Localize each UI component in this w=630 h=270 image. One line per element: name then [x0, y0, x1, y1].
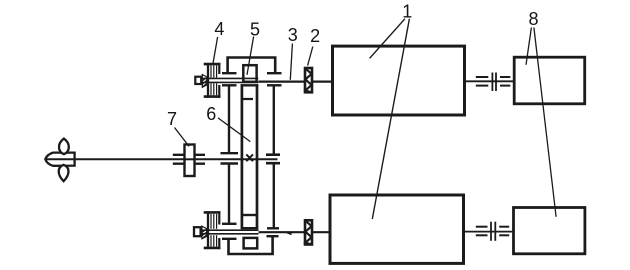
- gearbox left wall lower: [228, 164, 230, 224]
- propeller shaft (center line): [46, 158, 278, 160]
- svg-text:4: 4: [214, 19, 224, 39]
- label 4: [214, 19, 224, 39]
- label 5: [250, 19, 260, 39]
- leader line 8 to top generator: [526, 28, 531, 65]
- pinion 5: [243, 65, 256, 82]
- flexible coupling bottom (flange pair): [491, 222, 495, 241]
- propeller hub: [45, 153, 74, 166]
- top input shaft 3: [258, 80, 332, 82]
- gearbox top bearing feet above top shaft: [222, 72, 282, 74]
- label 6: [206, 104, 216, 124]
- thrust bearing 7 flange bars: [173, 155, 205, 164]
- center shaft bearing bars below: [221, 162, 281, 165]
- clutch 4 top end box: [195, 77, 201, 84]
- bottom input shaft: [259, 231, 331, 233]
- label 7: [167, 109, 177, 129]
- main gear wheel 6: [241, 84, 259, 229]
- leader line 3: [290, 44, 292, 80]
- gear to shaft connection mark: [246, 154, 253, 161]
- svg-text:5: 5: [250, 19, 260, 39]
- clutch bottom end box: [194, 227, 201, 236]
- svg-text:3: 3: [288, 25, 298, 45]
- propeller lower blade: [59, 165, 69, 181]
- clutch 4 top friction plates: [211, 66, 217, 96]
- leader line 4: [213, 37, 218, 65]
- engine 1 top: [333, 46, 465, 115]
- gearbox left wall upper: [228, 85, 230, 153]
- leader line 6: [218, 118, 250, 142]
- flexible coupling top (flange pair): [492, 73, 496, 92]
- gearbox right wall lower: [273, 163, 275, 228]
- elastic coupling bottom: [305, 220, 312, 244]
- engine 1 bottom: [330, 195, 464, 263]
- gearbox right wall upper: [273, 85, 275, 154]
- svg-text:6: 6: [206, 104, 216, 124]
- arrow mark on bottom shaft: [286, 232, 292, 235]
- gearbox top bracket: [228, 58, 276, 74]
- clutch 4 top cone: [202, 75, 207, 88]
- top engine output shaft: [466, 80, 514, 82]
- leader line 5: [247, 37, 254, 75]
- clutch bottom friction plates: [211, 214, 217, 247]
- svg-text:1: 1: [402, 2, 412, 22]
- label 8: [528, 9, 538, 29]
- bottom engine output shaft: [465, 231, 513, 233]
- svg-text:2: 2: [310, 26, 320, 46]
- top input shaft hollow section: [203, 78, 259, 82]
- bearing feet above bottom shaft: [222, 224, 279, 229]
- bottom input shaft hollow section: [203, 230, 259, 234]
- bearing feet below bottom shaft: [222, 236, 279, 239]
- label 2: [310, 26, 320, 46]
- clutch bottom housing: [204, 211, 221, 249]
- label 3: [288, 25, 298, 45]
- leader line 1 to top engine: [370, 19, 405, 59]
- elastic coupling 2 top: [305, 68, 312, 92]
- leader line 1 to bottom engine: [372, 19, 409, 219]
- center shaft bearing bars above: [221, 153, 281, 155]
- flexible coupling top elastic elements: [476, 77, 511, 86]
- thrust bearing 7 housing: [185, 145, 195, 177]
- leader line 7: [175, 128, 190, 147]
- clutch 4 top housing: [204, 63, 221, 98]
- gearbox bottom bracket: [229, 236, 273, 254]
- propeller upper blade: [59, 139, 69, 155]
- generator 8 top: [514, 57, 585, 104]
- generator 8 bottom: [514, 208, 585, 254]
- flexible coupling bottom elastic elements: [476, 227, 509, 236]
- bottom pinion housing: [244, 238, 258, 249]
- label 1: [402, 2, 412, 22]
- clutch bottom cone: [202, 226, 207, 239]
- svg-text:8: 8: [528, 9, 538, 29]
- leader line 2: [308, 47, 313, 66]
- gearbox bearing feet below top shaft: [222, 84, 282, 86]
- svg-text:7: 7: [167, 109, 177, 129]
- leader line 8 to bottom generator: [534, 28, 556, 217]
